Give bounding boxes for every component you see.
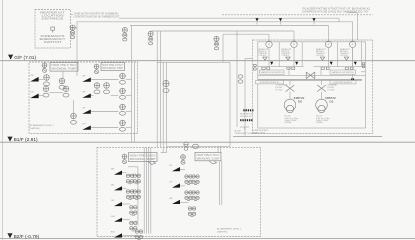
svg-text:WK/CWLWL 'PUMP': WK/CWLWL 'PUMP' [130, 158, 157, 161]
svg-text:G/B: G/B [111, 216, 115, 218]
svg-text:CRONTRET NURCOM. NU 'SMNBED EL: CRONTRET NURCOM. NU 'SMNBED EL787' [74, 15, 120, 19]
svg-text:1/B: 1/B [30, 92, 34, 94]
svg-text:1/B: 1/B [111, 200, 115, 202]
svg-text:(SMP/WK): (SMP/WK) [30, 128, 41, 130]
svg-text:CTK.N B: CTK.N B [281, 55, 289, 57]
svg-text:SWITCH: SWITCH [44, 41, 62, 44]
svg-text:2/B: 2/B [30, 75, 34, 77]
svg-text:(SMP/WK): (SMP/WK) [217, 231, 228, 233]
svg-text:CTK.N B: CTK.N B [258, 55, 266, 57]
svg-text:AT BASEMENT LEVEL 1: AT BASEMENT LEVEL 1 [30, 124, 55, 127]
svg-text:B/B: B/B [111, 232, 115, 234]
svg-text:WK/CWLWL 'PUMP': WK/CWLWL 'PUMP' [52, 68, 78, 71]
svg-text:WATER FLOW SWITCH: WATER FLOW SWITCH [332, 71, 354, 74]
svg-text:CTK.N B: CTK.N B [340, 55, 348, 57]
svg-text:P: P [328, 42, 330, 46]
svg-text:PL.Gpl: PL.Gpl [276, 89, 283, 91]
svg-text:DISTANCE: DISTANCE [42, 17, 65, 20]
svg-text:WK/W.WL 'LOW': WK/W.WL 'LOW' [197, 157, 221, 160]
svg-text:B2/F (-0.79): B2/F (-0.79) [14, 234, 40, 240]
svg-text:WK/CWLWL 'PMP': WK/CWLWL 'PMP' [102, 67, 124, 70]
svg-text:DXNPKON PYOB LNSQ.HQ 'SMNBDM': DXNPKON PYOB LNSQ.HQ 'SMNBDM' EQ 707 [303, 9, 370, 13]
svg-text:G/F (7.01): G/F (7.01) [14, 55, 36, 61]
svg-text:AT BASEMENT LEVEL 1: AT BASEMENT LEVEL 1 [217, 228, 242, 231]
svg-text:(746R): (746R) [316, 122, 323, 124]
svg-text:P: P [293, 42, 295, 46]
svg-text:AT B1 LEVEL: AT B1 LEVEL [253, 132, 267, 135]
svg-text:(746R): (746R) [285, 122, 292, 124]
svg-text:WATER FLOW SWITCH: WATER FLOW SWITCH [261, 71, 283, 74]
svg-text:P: P [268, 42, 270, 46]
svg-text:CTK.N B: CTK.N B [316, 55, 324, 57]
svg-text:B1/F (2.81): B1/F (2.81) [14, 137, 38, 143]
svg-text:D1: D1 [330, 100, 334, 104]
svg-text:PL.Gpl: PL.Gpl [328, 89, 335, 91]
svg-text:D0: D0 [298, 100, 302, 104]
svg-text:3/B: 3/B [111, 169, 115, 171]
svg-text:P: P [352, 42, 354, 46]
svg-text:2/B: 2/B [111, 184, 115, 186]
svg-text:100x100 PL: 100x100 PL [240, 116, 252, 118]
